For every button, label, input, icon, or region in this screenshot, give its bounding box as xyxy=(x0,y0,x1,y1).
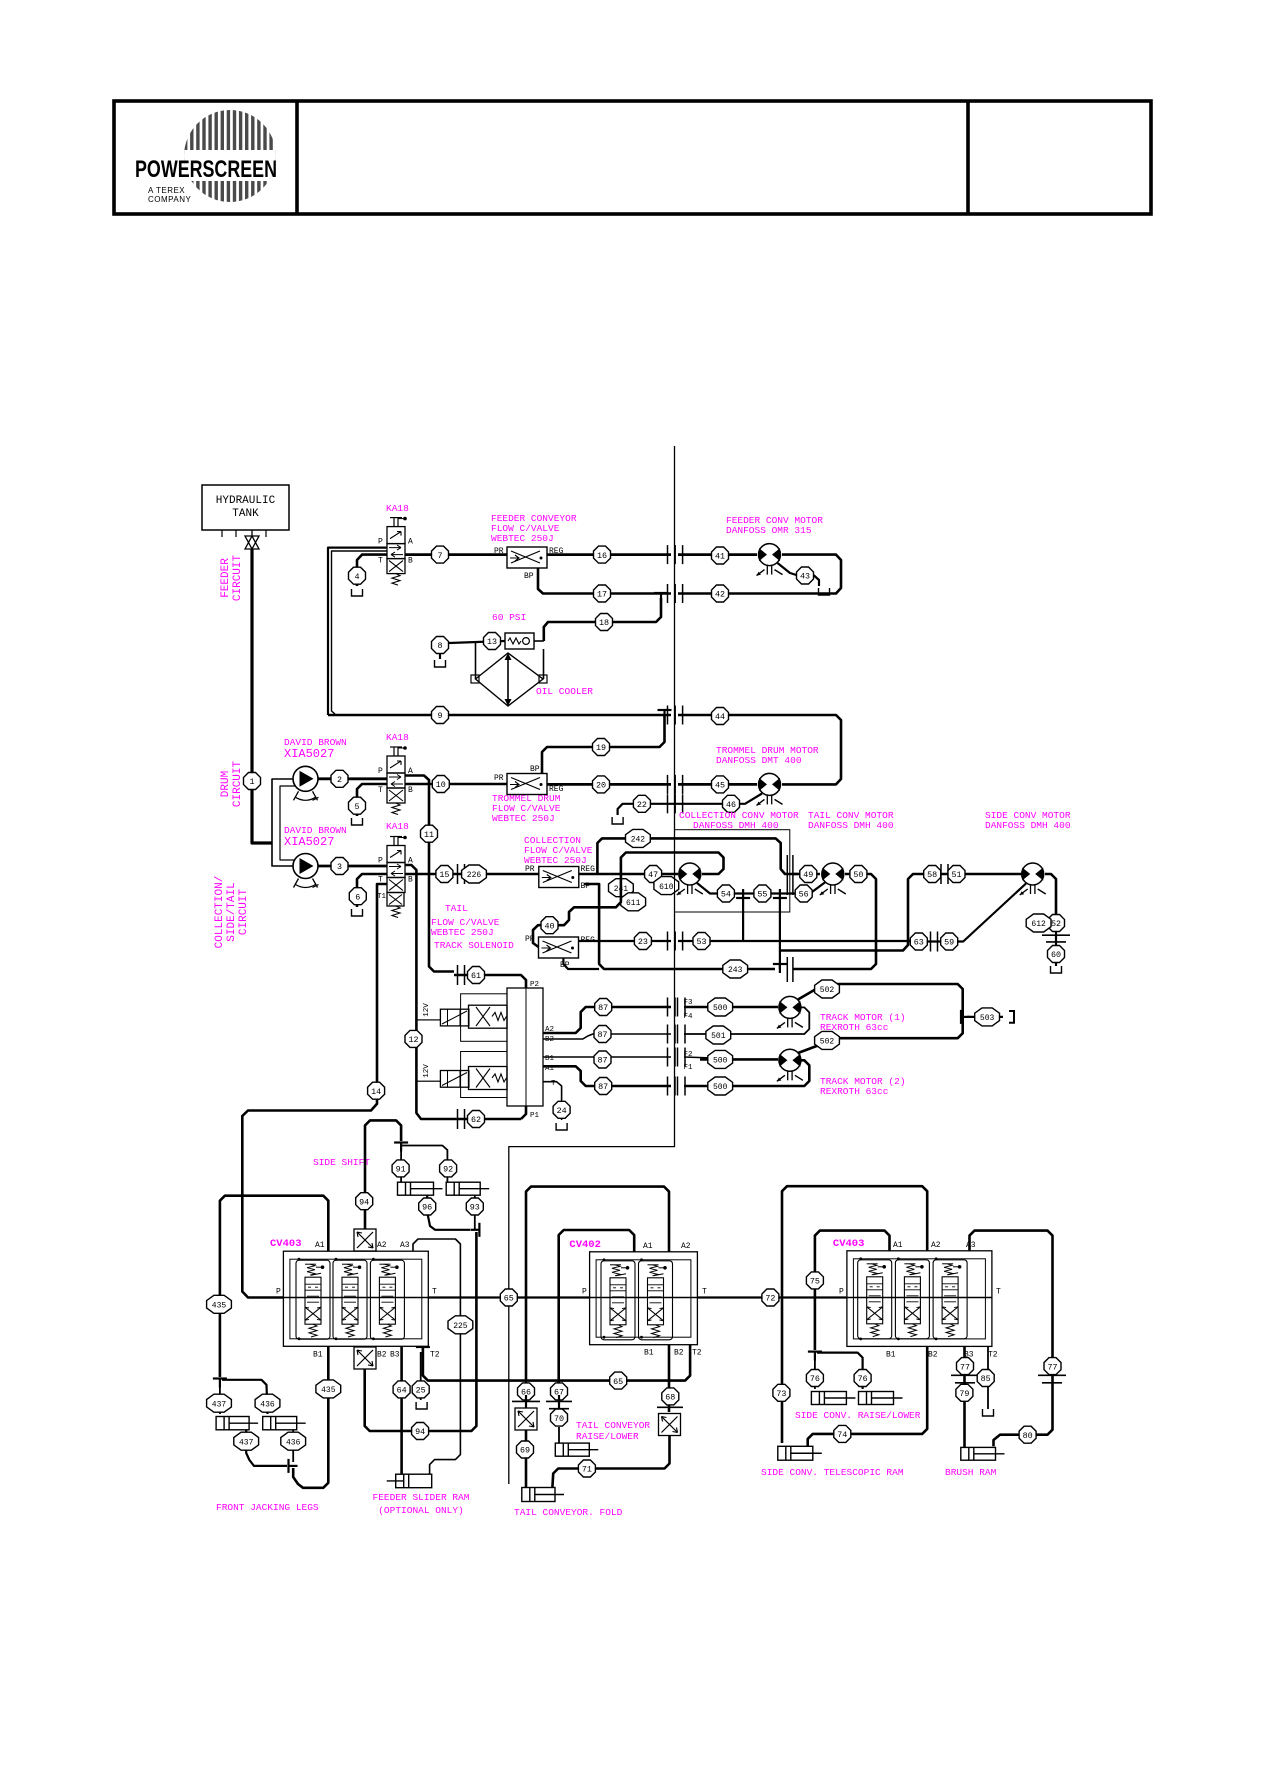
node 59 xyxy=(941,933,958,950)
node 1 xyxy=(244,773,261,790)
wire CV403-2 B3 to 79 brush ram xyxy=(963,1346,966,1372)
node 503 xyxy=(975,1008,1000,1026)
svg-text:P: P xyxy=(582,1288,587,1297)
svg-text:243: 243 xyxy=(728,966,743,975)
wire valve1 T drain to node 4 xyxy=(357,555,387,586)
tank symbol below node 43 xyxy=(819,588,830,595)
side conv telescopic ram xyxy=(778,1446,813,1460)
node 65 on T gallery xyxy=(500,1289,517,1306)
svg-text:FRONT JACKING LEGS: FRONT JACKING LEGS xyxy=(216,1502,319,1513)
wire node 61 feed xyxy=(454,975,526,988)
svg-text:25: 25 xyxy=(416,1386,426,1396)
node 72 xyxy=(762,1289,779,1306)
svg-text:PR: PR xyxy=(525,865,535,874)
wire 68 throttle to 71 to tail fold rod side xyxy=(552,1436,669,1488)
title block border xyxy=(114,101,1151,214)
bulkhead F1 xyxy=(667,1077,669,1096)
svg-text:KA18: KA18 xyxy=(386,503,409,514)
60 PSI bypass check valve xyxy=(505,633,534,649)
node 56 xyxy=(795,885,812,902)
svg-text:REG: REG xyxy=(549,785,564,794)
wire feeder return to valve BP xyxy=(538,568,671,594)
node 226 xyxy=(462,865,487,883)
svg-text:92: 92 xyxy=(443,1165,453,1175)
wire jack1 bottom to fitting xyxy=(246,1430,287,1466)
svg-text:610: 610 xyxy=(659,883,674,892)
svg-text:47: 47 xyxy=(648,870,658,880)
svg-text:77: 77 xyxy=(960,1362,970,1372)
brush ram xyxy=(961,1447,996,1460)
node 67 xyxy=(551,1383,568,1400)
hose coupling 58/51 xyxy=(940,864,942,884)
wire 70 to tail raise cylinder xyxy=(558,1427,560,1443)
pump P1 David Brown XIA5027 xyxy=(293,766,318,791)
wire valve2 B to trommel flow valve xyxy=(405,783,507,786)
wire to cylinder 92 xyxy=(401,1146,447,1183)
side shift cylinder 2 xyxy=(446,1182,480,1195)
bulkhead F3 xyxy=(667,998,669,1017)
svg-text:T: T xyxy=(996,1288,1001,1297)
node 49 xyxy=(800,866,817,883)
wire return line 9 xyxy=(328,714,671,717)
svg-text:A1: A1 xyxy=(893,1241,903,1250)
wire A1 to F1 xyxy=(543,1066,671,1086)
svg-text:16: 16 xyxy=(597,551,607,561)
wire 502 loop track motor 1 xyxy=(798,984,963,1053)
svg-text:500: 500 xyxy=(713,1057,728,1066)
wire pump2 to valve KA18 collection xyxy=(318,865,387,868)
svg-text:T: T xyxy=(378,557,383,566)
wire bridge A1 to jacking legs xyxy=(220,1196,328,1377)
wire side motor feed 58/51 xyxy=(780,874,1022,951)
node 2 xyxy=(331,770,348,787)
collection flow control valve xyxy=(539,867,579,888)
wire node 8 to check valve xyxy=(449,641,505,643)
svg-text:69: 69 xyxy=(520,1446,530,1456)
node 500 track1 xyxy=(708,998,733,1016)
svg-text:A TEREX: A TEREX xyxy=(148,186,185,195)
throttle A2 top CV403-1 xyxy=(354,1229,376,1251)
svg-text:TAIL: TAIL xyxy=(445,903,468,914)
svg-text:TRACK SOLENOID: TRACK SOLENOID xyxy=(434,940,514,951)
svg-text:56: 56 xyxy=(799,890,809,900)
tee fitting on line 9 xyxy=(658,709,672,711)
svg-text:WEBTEC 250J: WEBTEC 250J xyxy=(492,813,555,824)
node 611 xyxy=(621,893,646,911)
wire pump1 to valve KA18 drum xyxy=(318,777,387,780)
svg-text:DANFOSS DMH 400: DANFOSS DMH 400 xyxy=(808,820,894,831)
wire collection motor return via 241 to tail valve PR xyxy=(533,853,724,948)
wire F3 to track motor 1 xyxy=(684,1006,778,1009)
svg-text:TAIL CONVEYOR: TAIL CONVEYOR xyxy=(576,1420,650,1431)
svg-text:437: 437 xyxy=(239,1438,254,1447)
bulkhead fitting line 9 xyxy=(667,706,669,725)
svg-text:435: 435 xyxy=(212,1302,227,1311)
bulkhead 243 line xyxy=(786,957,788,982)
svg-text:T1: T1 xyxy=(377,893,387,901)
svg-text:611: 611 xyxy=(626,899,641,908)
svg-text:RAISE/LOWER: RAISE/LOWER xyxy=(576,1431,639,1442)
svg-text:79: 79 xyxy=(959,1389,969,1399)
tee fitting 42/18 junction xyxy=(654,592,668,594)
firewall bulkhead line xyxy=(509,446,675,1484)
svg-text:B1: B1 xyxy=(313,1350,323,1359)
svg-text:XIA5027: XIA5027 xyxy=(284,747,334,761)
node 42 xyxy=(712,585,729,602)
svg-text:6: 6 xyxy=(355,892,360,902)
node 20 xyxy=(593,776,610,793)
wire firewall to feeder motor xyxy=(678,553,757,556)
svg-text:76: 76 xyxy=(858,1374,868,1384)
svg-text:DANFOSS DMT 400: DANFOSS DMT 400 xyxy=(716,755,802,766)
node 10 xyxy=(432,776,449,793)
tail conveyor raise/lower cylinder xyxy=(555,1443,589,1456)
node 96 xyxy=(419,1198,436,1215)
plug fitting after 503 xyxy=(1009,1011,1014,1023)
svg-text:72: 72 xyxy=(765,1294,775,1304)
svg-text:P: P xyxy=(378,857,383,866)
bulkhead fitting feeder return line xyxy=(667,584,669,603)
svg-text:87: 87 xyxy=(597,1030,607,1040)
node 62 xyxy=(468,1111,485,1128)
svg-text:17: 17 xyxy=(597,590,607,600)
wire CV403-2 T2 to tank 85 xyxy=(987,1346,989,1409)
svg-text:436: 436 xyxy=(260,1400,275,1409)
node 94 upper xyxy=(356,1193,373,1210)
node 4 xyxy=(349,567,366,584)
svg-text:91: 91 xyxy=(396,1165,406,1175)
wire to cylinder 91 xyxy=(400,1148,402,1182)
node 87 B2 xyxy=(594,1026,611,1043)
side conv raise cylinder 1 xyxy=(811,1392,846,1405)
svg-text:94: 94 xyxy=(415,1427,425,1437)
coupler bars below 52 xyxy=(1042,934,1070,936)
tail conveyor motor xyxy=(822,863,844,885)
svg-text:74: 74 xyxy=(837,1430,847,1440)
coupler bar 66 xyxy=(512,1400,540,1402)
coupler bars 77 left xyxy=(951,1374,979,1376)
node 80 xyxy=(1019,1426,1036,1443)
throttle B2 bottom CV403-1 xyxy=(354,1347,376,1369)
node 243 xyxy=(723,960,748,978)
tee fitting 76 branch xyxy=(808,1350,822,1352)
svg-text:87: 87 xyxy=(598,1082,608,1092)
tank symbol below node 5 xyxy=(352,818,363,825)
svg-text:500: 500 xyxy=(713,1004,728,1013)
wire valve2 T drain to node 5 xyxy=(357,784,387,816)
node 500 track2 return xyxy=(708,1077,733,1095)
wire CV403-2 B2 to 74 telescopic ram xyxy=(808,1346,928,1446)
svg-text:52: 52 xyxy=(1051,919,1061,929)
bulkhead F4 xyxy=(667,1025,669,1044)
svg-text:12V: 12V xyxy=(423,1064,431,1078)
svg-text:A2: A2 xyxy=(931,1241,941,1250)
oil cooler xyxy=(476,653,544,706)
bulkhead fitting feeder pressure line xyxy=(667,545,669,564)
node 45 xyxy=(712,776,729,793)
svg-text:BP: BP xyxy=(530,765,540,774)
coupler bar 68 xyxy=(657,1406,683,1408)
svg-text:9: 9 xyxy=(437,711,442,721)
svg-text:P: P xyxy=(276,1288,281,1297)
svg-text:45: 45 xyxy=(715,781,725,791)
node 9 xyxy=(432,707,449,724)
track solenoid valve 1 xyxy=(469,1005,508,1028)
trommel drum motor xyxy=(759,773,781,795)
track motor 1 xyxy=(779,996,801,1018)
node 8 xyxy=(432,637,449,654)
wire 79 down to brush ram xyxy=(963,1375,966,1447)
svg-text:41: 41 xyxy=(715,552,725,562)
tail flow control valve xyxy=(539,937,579,958)
bulkhead line 53 at firewall xyxy=(667,932,669,951)
node 502 upper xyxy=(815,980,840,998)
svg-text:TAIL CONVEYOR. FOLD: TAIL CONVEYOR. FOLD xyxy=(514,1507,623,1518)
wire valve1 P supply double line xyxy=(328,548,387,715)
node 12 xyxy=(405,1030,422,1047)
svg-text:76: 76 xyxy=(810,1374,820,1384)
track motor 2 xyxy=(779,1049,801,1071)
svg-text:5: 5 xyxy=(354,802,359,812)
wire 63/59 line xyxy=(918,940,944,942)
wire B1 to F2 xyxy=(543,1056,671,1058)
node 17 xyxy=(594,585,611,602)
wire valve3 T drain to node 6 xyxy=(357,874,387,907)
valve bank CV402 xyxy=(590,1252,698,1345)
svg-text:DANFOSS OMR 315: DANFOSS OMR 315 xyxy=(726,525,812,536)
fitting 93/96 junction xyxy=(478,1223,480,1237)
wire tail REG line 23/53 xyxy=(579,940,672,942)
node 15 xyxy=(436,866,453,883)
tank symbol 85 xyxy=(983,1409,994,1416)
svg-text:F4: F4 xyxy=(684,1013,694,1021)
node 79 xyxy=(956,1384,973,1401)
tank symbol below 24 xyxy=(556,1123,567,1130)
node 13 xyxy=(484,633,501,650)
svg-text:CIRCUIT: CIRCUIT xyxy=(232,761,244,808)
svg-text:435: 435 xyxy=(321,1386,336,1395)
node 18 xyxy=(596,614,613,631)
node 46 xyxy=(723,795,740,812)
node 63 xyxy=(910,933,927,950)
svg-text:24: 24 xyxy=(557,1106,567,1116)
svg-text:1: 1 xyxy=(249,777,254,787)
node 76 right xyxy=(854,1370,871,1387)
svg-text:12: 12 xyxy=(408,1035,418,1045)
svg-text:T2: T2 xyxy=(430,1350,440,1359)
svg-text:DRUM: DRUM xyxy=(220,771,232,797)
svg-text:COLLECTION/: COLLECTION/ xyxy=(214,876,226,949)
side conv raise cylinder 2 xyxy=(859,1392,894,1405)
wire F2 to track motor 2 xyxy=(684,1057,714,1058)
hydraulic tank xyxy=(202,485,289,530)
node 436 upper xyxy=(255,1394,280,1412)
node 92 xyxy=(440,1160,457,1177)
svg-text:60 PSI: 60 PSI xyxy=(492,612,526,623)
wire jack2 bottom to fitting xyxy=(292,1430,294,1462)
wire CV403-2 A3 loop to 77 brush line xyxy=(970,1231,1053,1370)
node 73 xyxy=(773,1384,790,1401)
svg-text:14: 14 xyxy=(371,1087,381,1097)
svg-text:96: 96 xyxy=(422,1203,432,1213)
wire A3 loop to 225 line xyxy=(413,1239,460,1474)
wire 242 loop collection to tail feed xyxy=(597,838,798,874)
svg-text:A3: A3 xyxy=(966,1241,976,1250)
svg-text:500: 500 xyxy=(713,1083,728,1092)
wire valve1 to feeder flow valve xyxy=(405,553,507,556)
svg-text:7: 7 xyxy=(437,551,442,561)
node 25 xyxy=(412,1381,429,1398)
tail conveyor fold cylinder xyxy=(522,1488,555,1502)
svg-text:SIDE CONV. TELESCOPIC RAM: SIDE CONV. TELESCOPIC RAM xyxy=(761,1467,904,1478)
node 435 lower xyxy=(316,1380,341,1398)
node 68 xyxy=(662,1388,679,1405)
wire manifold T to node 24 xyxy=(543,1082,562,1120)
wire firewall to trommel motor xyxy=(678,783,757,786)
svg-text:60: 60 xyxy=(1051,950,1061,960)
node 437 upper xyxy=(207,1394,232,1412)
node 71 xyxy=(578,1460,595,1477)
svg-text:80: 80 xyxy=(1023,1431,1033,1441)
svg-text:FEEDER SLIDER RAM: FEEDER SLIDER RAM xyxy=(373,1492,470,1503)
node 6 xyxy=(349,888,366,905)
wire collection BP riser to 243 line xyxy=(584,884,775,969)
svg-text:WEBTEC 250J: WEBTEC 250J xyxy=(431,927,494,938)
node 93 xyxy=(466,1198,483,1215)
wire node 18 line to oil cooler xyxy=(544,598,661,641)
svg-text:COMPANY: COMPANY xyxy=(148,195,192,204)
tank symbol below node 8 xyxy=(439,654,441,659)
node 77 right xyxy=(1044,1358,1061,1375)
svg-text:20: 20 xyxy=(596,781,606,791)
svg-text:REG: REG xyxy=(581,865,596,874)
svg-text:BRUSH RAM: BRUSH RAM xyxy=(945,1467,997,1478)
collection motor enclosure xyxy=(675,830,790,912)
svg-text:59: 59 xyxy=(944,938,954,948)
node 94 lower xyxy=(412,1423,429,1440)
side shift cylinder 1 xyxy=(398,1182,434,1195)
svg-text:(OPTIONAL ONLY): (OPTIONAL ONLY) xyxy=(378,1505,464,1516)
node 87 A1 xyxy=(595,1078,612,1095)
node 47 xyxy=(645,866,662,883)
node 76 left xyxy=(806,1370,823,1387)
tee fitting T1 on drain xyxy=(736,897,750,899)
svg-text:PR: PR xyxy=(494,774,504,783)
node 91 xyxy=(392,1160,409,1177)
node 16 xyxy=(594,546,611,563)
svg-text:P: P xyxy=(378,767,383,776)
wire T gallery CV403-1 to CV402 xyxy=(428,1296,589,1298)
wire to 436 cylinder xyxy=(222,1380,268,1414)
trommel drum flow control valve xyxy=(507,774,547,795)
pump inlet bracket xyxy=(272,779,293,866)
svg-text:B2: B2 xyxy=(545,1036,554,1044)
tank shutoff valve xyxy=(245,536,259,549)
wire tank supply to pumps xyxy=(252,549,272,843)
svg-text:502: 502 xyxy=(820,986,835,995)
svg-text:WEBTEC 250J: WEBTEC 250J xyxy=(491,533,554,544)
svg-text:3: 3 xyxy=(337,862,342,872)
svg-text:19: 19 xyxy=(596,743,606,753)
oil cooler risers xyxy=(534,640,544,642)
tee fitting T2 on drain xyxy=(773,897,787,899)
svg-text:T2: T2 xyxy=(988,1350,998,1359)
svg-text:51: 51 xyxy=(951,870,961,880)
wire 93 return xyxy=(474,1195,476,1230)
tee side shift xyxy=(394,1141,408,1143)
wire 77 right to 80 to brush ram rod xyxy=(994,1375,1053,1446)
front jacking leg cylinder 1 xyxy=(216,1417,249,1430)
svg-text:PR: PR xyxy=(525,935,535,944)
wire to 76 cylinders xyxy=(814,1356,816,1389)
node 610 xyxy=(654,877,679,895)
svg-text:75: 75 xyxy=(810,1277,820,1287)
wire 96 return xyxy=(427,1195,470,1230)
wire feeder flow valve REG to firewall xyxy=(547,553,671,556)
wire 501 motor1 B side xyxy=(684,1007,809,1034)
node 612 xyxy=(1026,914,1051,932)
svg-text:T2: T2 xyxy=(692,1349,702,1358)
collection motor drain line 54/55 xyxy=(697,883,796,894)
svg-text:4: 4 xyxy=(354,572,359,582)
svg-text:A2: A2 xyxy=(681,1242,691,1251)
node 11 xyxy=(421,825,438,842)
svg-text:A1: A1 xyxy=(315,1241,325,1250)
node 69 xyxy=(517,1441,534,1458)
svg-text:40: 40 xyxy=(544,921,554,931)
bulkhead F2 xyxy=(667,1048,669,1067)
tee fitting T2 CV403-1 xyxy=(416,1346,430,1348)
track manifold block xyxy=(507,988,543,1106)
tee fitting on 243 line xyxy=(773,963,787,965)
hose coupling 61 xyxy=(457,965,459,985)
track solenoid valve 1 enclosure xyxy=(461,994,507,1042)
wire B3 to feeder slider ram xyxy=(400,1346,403,1474)
svg-text:22: 22 xyxy=(637,800,647,810)
svg-text:T: T xyxy=(702,1288,707,1297)
svg-text:8: 8 xyxy=(437,641,442,651)
track solenoid valve 2 enclosure xyxy=(461,1052,507,1098)
node 85 xyxy=(977,1370,994,1387)
node 44 xyxy=(712,708,729,725)
node 501 xyxy=(706,1026,731,1044)
svg-text:87: 87 xyxy=(597,1056,607,1066)
wire B2 to F4 xyxy=(543,1034,671,1039)
wire collection REG to collection motor xyxy=(579,873,678,876)
svg-text:65: 65 xyxy=(613,1377,623,1387)
node 41 xyxy=(712,547,729,564)
svg-text:12V: 12V xyxy=(423,1003,431,1017)
svg-text:502: 502 xyxy=(820,1038,835,1047)
svg-text:PR: PR xyxy=(494,547,504,556)
tank symbol below 25 xyxy=(416,1402,427,1409)
svg-text:CV402: CV402 xyxy=(569,1239,601,1251)
svg-text:XIA5027: XIA5027 xyxy=(284,835,334,849)
svg-text:SIDE SHIFT: SIDE SHIFT xyxy=(313,1157,370,1168)
track solenoid 1 coil xyxy=(440,1009,469,1026)
svg-text:P: P xyxy=(378,538,383,547)
svg-text:70: 70 xyxy=(554,1414,564,1424)
wire T1 stem to line 53 xyxy=(742,897,744,941)
svg-text:A2: A2 xyxy=(377,1241,387,1250)
svg-text:B3: B3 xyxy=(390,1350,400,1359)
track solenoid valve 2 xyxy=(469,1067,508,1090)
valve bank CV403 number 2 xyxy=(847,1251,992,1347)
svg-text:KA18: KA18 xyxy=(386,821,409,832)
svg-text:93: 93 xyxy=(470,1203,480,1213)
svg-text:503: 503 xyxy=(980,1014,995,1023)
tail motor drain to node 56 xyxy=(796,882,826,894)
